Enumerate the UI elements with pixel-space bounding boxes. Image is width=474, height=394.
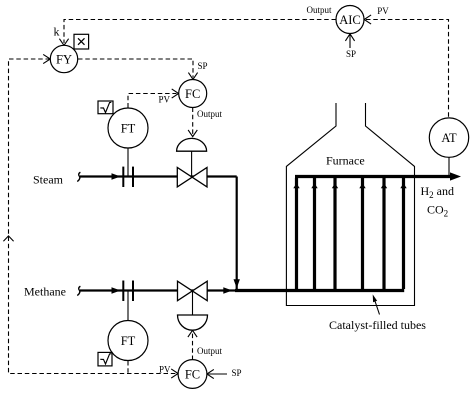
svg-text:Catalyst-filled tubes: Catalyst-filled tubes: [329, 318, 426, 332]
svg-text:AT: AT: [441, 131, 457, 145]
svg-text:PV: PV: [159, 364, 171, 374]
svg-text:PV: PV: [377, 6, 389, 16]
svg-text:FC: FC: [185, 367, 200, 381]
svg-text:FY: FY: [56, 52, 72, 66]
svg-text:SP: SP: [232, 368, 242, 378]
svg-text:Methane: Methane: [24, 285, 66, 299]
svg-text:Output: Output: [307, 5, 333, 15]
svg-text:FT: FT: [121, 121, 136, 135]
svg-text:Steam: Steam: [33, 172, 64, 186]
svg-text:Output: Output: [197, 109, 223, 119]
svg-text:PV: PV: [159, 95, 171, 105]
svg-text:FC: FC: [185, 87, 200, 101]
svg-text:AIC: AIC: [339, 13, 361, 27]
svg-text:SP: SP: [198, 61, 208, 71]
svg-text:SP: SP: [346, 49, 356, 59]
svg-text:Output: Output: [197, 346, 223, 356]
svg-text:Furnace: Furnace: [326, 153, 365, 167]
svg-text:H2 and: H2 and: [421, 184, 455, 200]
svg-text:FT: FT: [121, 334, 136, 348]
svg-text:k: k: [54, 24, 60, 38]
